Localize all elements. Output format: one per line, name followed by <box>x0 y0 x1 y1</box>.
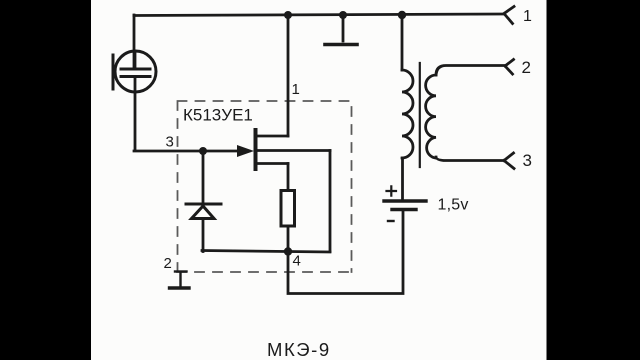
svg-text:2: 2 <box>522 58 531 77</box>
transistor Q1 (inside IC) <box>237 130 330 169</box>
ground (top, on rail) <box>325 15 357 45</box>
wire: node 3 to transistor gate <box>203 150 249 153</box>
node 4 junction dot <box>284 247 292 255</box>
right letterbox bar <box>547 0 640 360</box>
svg-text:3: 3 <box>523 151 532 170</box>
terminal 1 connector <box>504 7 514 24</box>
svg-text:1,5v: 1,5v <box>438 197 469 214</box>
wire: battery plus up to transformer <box>401 158 404 200</box>
wire: secondary bottom to terminal 3 <box>436 157 503 161</box>
junction: rail / top ground <box>339 11 347 19</box>
wire: node 4 horizontal <box>202 251 330 253</box>
junction: rail / transformer <box>398 11 406 19</box>
junction: rail / pin1 <box>284 11 292 19</box>
wire: rail down to microphone <box>133 15 136 69</box>
microphone BM1 (electret capsule) <box>113 51 156 92</box>
resistor R1 <box>281 164 295 252</box>
pin 2 ground (bottom-left) <box>170 272 190 289</box>
svg-text:2: 2 <box>164 255 172 272</box>
battery GB1 1,5v <box>384 186 426 221</box>
diode VD1 <box>186 151 221 252</box>
transformer T1 primary winding <box>402 70 413 158</box>
node 3 junction dot <box>199 147 207 155</box>
paper background <box>91 0 547 360</box>
wire: secondary top to terminal 2 <box>436 66 504 76</box>
wire: top rail <box>134 14 503 16</box>
IC U1 dashed outline <box>177 101 352 272</box>
terminal 3 connector <box>504 153 514 169</box>
svg-text:1: 1 <box>523 8 532 25</box>
left letterbox bar <box>0 0 91 360</box>
svg-text:4: 4 <box>293 253 301 270</box>
wire: pin 1 up to rail <box>287 15 290 136</box>
svg-text:1: 1 <box>292 81 300 98</box>
svg-text:К513УЕ1: К513УЕ1 <box>183 106 253 125</box>
transformer core <box>419 63 421 167</box>
terminal 2 connector <box>505 60 514 75</box>
wire: transistor middle lead down <box>329 151 332 252</box>
transformer T1 secondary winding <box>426 75 436 158</box>
svg-text:МКЭ-9: МКЭ-9 <box>267 339 331 360</box>
svg-text:3: 3 <box>166 134 174 151</box>
wire: microphone down and right to node 3 <box>134 77 203 152</box>
wire: node 4 down, right, up to battery minus <box>288 211 403 294</box>
wire: rail down to transformer primary <box>401 15 404 70</box>
